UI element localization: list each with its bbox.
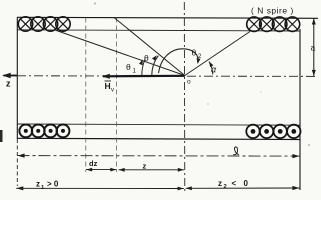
solenoid top boundary line: [17, 17, 318, 18]
dz slice right vertical line: [116, 18, 118, 173]
z axis center line (dash-dot): [17, 75, 318, 78]
bottom-right coil turns (4 dot-marked): [246, 125, 300, 138]
scan mark left edge: [0, 130, 3, 142]
svg-text:θ: θ: [192, 48, 197, 58]
dimension dz line: [86, 169, 117, 171]
left edge line: [16, 17, 18, 139]
z axis arrow: [4, 75, 18, 77]
dimension z line: [119, 169, 185, 171]
svg-text:z: z: [36, 180, 40, 189]
svg-text:α: α: [211, 65, 217, 75]
svg-text:θ: θ: [126, 62, 131, 72]
svg-text:( N spire ): ( N spire ): [251, 6, 294, 16]
svg-text:a: a: [311, 43, 316, 53]
dimension z2 line: [186, 187, 300, 189]
svg-text:H: H: [105, 81, 111, 91]
svg-text:z: z: [218, 179, 222, 188]
svg-text:θ: θ: [144, 53, 149, 63]
svg-text:dz: dz: [89, 159, 98, 168]
central vertical line through O (dash-dot): [183, 2, 186, 191]
top winding inner line: [17, 30, 300, 31]
left edge dashed extension: [16, 139, 18, 186]
alpha angle arc: [209, 62, 213, 75]
top-right coil turns (4 X-marked): [247, 17, 300, 32]
theta angle arc: [152, 56, 159, 76]
svg-text:z: z: [6, 79, 11, 89]
svg-text:0: 0: [244, 179, 249, 188]
ray to dz slice (theta line): [114, 18, 185, 76]
svg-text:> 0: > 0: [47, 180, 59, 189]
dimension a line: [313, 18, 315, 76]
svg-text:o: o: [187, 79, 191, 86]
bottom-left coil turns (4 dot-marked): [19, 124, 69, 137]
dimension l line: [18, 155, 300, 158]
scan specks: [94, 2, 96, 4]
top-left coil turns (4 X-marked): [18, 17, 70, 31]
dz slice left vertical line: [85, 18, 87, 173]
right edge line: [299, 29, 301, 190]
bottom winding inner line: [17, 124, 300, 125]
svg-text:2: 2: [224, 184, 227, 190]
ray to right coil end (alpha line): [185, 32, 250, 76]
ray to winding turn (theta1 line): [55, 30, 185, 76]
dimension z1 line: [16, 187, 184, 189]
H_v field vector: [103, 75, 185, 78]
theta1 angle arc: [142, 59, 145, 75]
svg-text:z: z: [143, 162, 147, 171]
svg-text:<: <: [232, 179, 237, 188]
l label: [233, 147, 239, 155]
theta2 angle arc: [159, 49, 199, 73]
svg-text:v: v: [111, 88, 114, 94]
solenoid bottom boundary line: [17, 138, 300, 139]
